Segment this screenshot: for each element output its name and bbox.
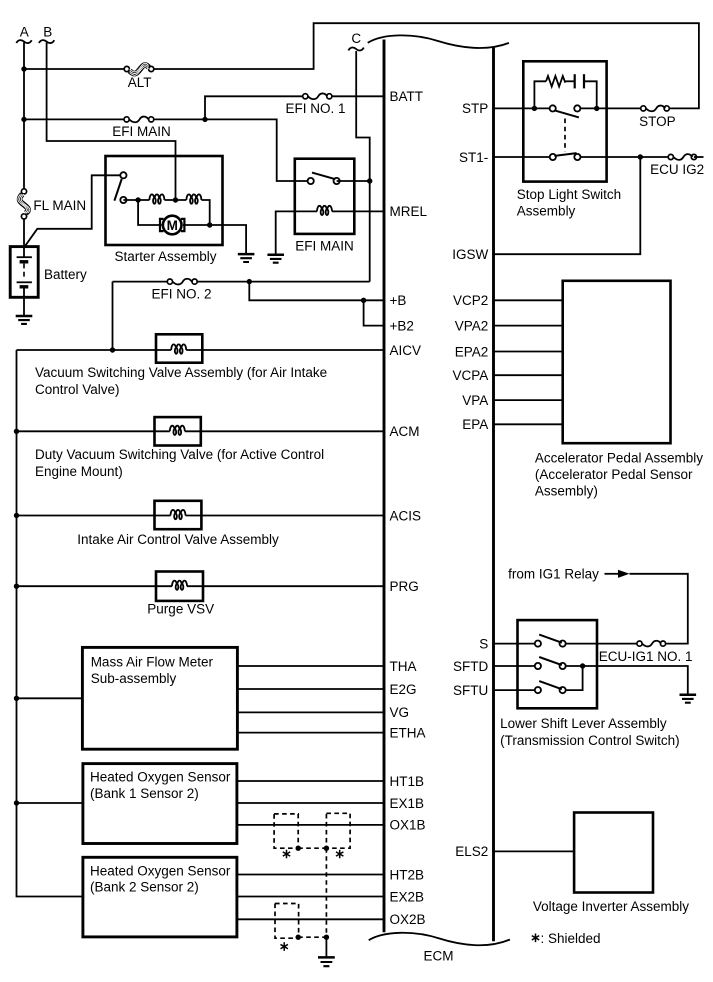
wire EFI MAIN fuse output to relay switch bbox=[151, 119, 307, 181]
svg-text:Starter Assembly: Starter Assembly bbox=[114, 249, 216, 264]
svg-text:(Transmission Control Switch): (Transmission Control Switch) bbox=[500, 733, 680, 748]
shield dashed box OX1B right bbox=[326, 813, 350, 848]
svg-text:ECU IG2: ECU IG2 bbox=[650, 162, 704, 177]
box Voltage Inverter Assembly bbox=[574, 813, 653, 893]
junction dot relay output / C bbox=[367, 178, 372, 183]
ground SFTD bbox=[680, 694, 697, 697]
junction dot bus MAF bbox=[14, 696, 19, 701]
svg-text:HT2B: HT2B bbox=[390, 867, 425, 882]
wire STP from ECM bbox=[494, 107, 553, 109]
junction dot coil line left bbox=[135, 197, 140, 202]
svg-text:B: B bbox=[43, 25, 52, 40]
ECM right edge bbox=[492, 48, 495, 942]
VSV box PRG bbox=[156, 572, 203, 601]
svg-text:BATT: BATT bbox=[390, 89, 424, 104]
ground shield bbox=[318, 956, 335, 959]
wire SFTU output up to SFTD bbox=[563, 666, 583, 690]
svg-text:ACM: ACM bbox=[390, 424, 420, 439]
motor M starter bbox=[163, 216, 182, 235]
wire EPA bbox=[494, 423, 563, 425]
svg-text:Vacuum Switching Valve Assembl: Vacuum Switching Valve Assembly (for Air… bbox=[35, 365, 327, 380]
svg-text:EFI NO. 2: EFI NO. 2 bbox=[151, 286, 211, 301]
fuse EFI NO. 1 bbox=[303, 94, 308, 99]
svg-text:Engine Mount): Engine Mount) bbox=[35, 464, 123, 479]
wire EPA2 bbox=[494, 351, 563, 353]
ECM bottom wavy edge bbox=[369, 933, 510, 945]
svg-text:C: C bbox=[351, 31, 361, 46]
wire E2G bbox=[237, 688, 384, 690]
svg-text:Intake Air Control Valve Assem: Intake Air Control Valve Assembly bbox=[77, 532, 279, 547]
wire ST1- from ECM bbox=[494, 156, 553, 158]
battery feed wire to starter switch bbox=[24, 175, 123, 247]
svg-text:+B2: +B2 bbox=[390, 318, 414, 333]
junction dot A-ALT bbox=[21, 66, 26, 71]
shift switch SFTU contacts bbox=[535, 687, 541, 693]
junction dot shield4 bbox=[324, 935, 329, 940]
svg-text:EFI MAIN: EFI MAIN bbox=[295, 238, 354, 253]
svg-text:FL MAIN: FL MAIN bbox=[33, 198, 86, 213]
wire +B2 bbox=[364, 300, 384, 325]
svg-text:ECM: ECM bbox=[424, 949, 454, 964]
relay box EFI MAIN bbox=[295, 159, 355, 234]
node C break symbol bbox=[348, 47, 363, 50]
box Heated Oxygen Sensor bank1 bbox=[83, 764, 237, 844]
wire ALT line from A bbox=[24, 68, 127, 70]
wire coil line right corner down to motor line bbox=[201, 200, 209, 225]
wire A vertical bbox=[23, 43, 25, 248]
VSV box ACIS bbox=[155, 501, 202, 529]
wire relay switch output to C node junction bbox=[337, 180, 370, 182]
svg-text:VCP2: VCP2 bbox=[453, 293, 488, 308]
junction dot bus ACIS bbox=[14, 513, 19, 518]
capacitor stop switch bbox=[574, 74, 576, 88]
wire starter switch to coil line bbox=[123, 199, 149, 201]
wire MREL from relay coil to ECM bbox=[332, 210, 384, 212]
wire ST1- switch output bbox=[577, 156, 670, 158]
svg-text:Duty Vacuum Switching Valve (f: Duty Vacuum Switching Valve (for Active … bbox=[35, 447, 324, 462]
svg-text:ALT: ALT bbox=[128, 75, 152, 90]
wire +B bbox=[249, 282, 384, 301]
coil VSV ACIS bbox=[171, 510, 186, 516]
stop switch 1 lever bbox=[554, 110, 579, 117]
svg-text:Purge VSV: Purge VSV bbox=[147, 602, 214, 617]
relay switch contacts bbox=[308, 178, 314, 184]
wire VCPA bbox=[494, 374, 563, 376]
coil VSV PRG bbox=[172, 581, 187, 587]
wire EX1B bbox=[237, 802, 384, 804]
svg-text:ACIS: ACIS bbox=[390, 508, 422, 523]
svg-text:M: M bbox=[167, 218, 178, 233]
svg-text:PRG: PRG bbox=[390, 579, 419, 594]
svg-text:(Bank 1 Sensor 2): (Bank 1 Sensor 2) bbox=[90, 786, 199, 801]
stop switch 2 contacts bbox=[550, 154, 556, 160]
wire IGSW bbox=[494, 157, 641, 254]
wire ACM line bbox=[17, 430, 385, 432]
wire capacitor to right stub bbox=[584, 81, 597, 108]
stop switch 1 contacts bbox=[550, 105, 556, 111]
coil VSV ACM bbox=[170, 426, 185, 432]
node A break symbol bbox=[16, 40, 31, 43]
svg-text:(Bank 2 Sensor 2): (Bank 2 Sensor 2) bbox=[90, 880, 199, 895]
shift switch SFTU lever bbox=[539, 681, 562, 689]
box Heated Oxygen Sensor bank2 bbox=[83, 857, 237, 937]
stop light switch box bbox=[523, 61, 606, 181]
wire ACIS line bbox=[17, 515, 385, 517]
shift switch S contacts bbox=[535, 641, 541, 647]
wire EFI NO.1 branch to BATT bbox=[205, 96, 384, 119]
wire PRG line bbox=[17, 585, 385, 587]
junction dot bus PRG bbox=[14, 584, 19, 589]
wire ECU IG2 tail bbox=[694, 156, 704, 158]
shield dashed box OX2B bbox=[275, 904, 299, 939]
junction dot bus ACM bbox=[14, 429, 19, 434]
ground starter bbox=[238, 253, 255, 256]
svg-text:ST1-: ST1- bbox=[459, 150, 488, 165]
svg-text:Voltage Inverter Assembly: Voltage Inverter Assembly bbox=[533, 899, 689, 914]
svg-text:EPA: EPA bbox=[462, 417, 488, 432]
label asterisk shield1 bbox=[283, 850, 290, 859]
svg-text:Assembly: Assembly bbox=[517, 203, 576, 218]
svg-text:EFI NO. 1: EFI NO. 1 bbox=[285, 101, 345, 116]
ECM top wavy edge bbox=[368, 35, 509, 48]
dashed link between stop switches bbox=[564, 119, 566, 152]
wire HT2B bbox=[237, 874, 384, 876]
wire node C down joining relay output and EFI NO.2 line bbox=[356, 51, 370, 282]
shield dashed link 2 bbox=[298, 936, 326, 938]
shift switch SFTD lever bbox=[539, 657, 562, 665]
wire bus feed to MAF box bbox=[17, 697, 83, 699]
wire EX2B bbox=[237, 896, 384, 898]
label asterisk shield3 bbox=[281, 942, 288, 951]
svg-text:ETHA: ETHA bbox=[390, 725, 426, 740]
svg-text:Heated Oxygen Sensor: Heated Oxygen Sensor bbox=[90, 864, 231, 879]
junction dot STP left bbox=[532, 106, 537, 111]
junction dot bus HO2S1 bbox=[14, 800, 19, 805]
svg-text:ECU-IG1 NO. 1: ECU-IG1 NO. 1 bbox=[599, 649, 693, 664]
junction dot EFI NO.2 to +B bbox=[247, 279, 252, 284]
fuse EFI MAIN bbox=[124, 117, 129, 122]
svg-text:E2G: E2G bbox=[390, 682, 417, 697]
VSV box AICV bbox=[156, 334, 202, 362]
svg-text:SFTU: SFTU bbox=[453, 683, 488, 698]
svg-text:IGSW: IGSW bbox=[452, 247, 488, 262]
ground below battery bbox=[16, 315, 33, 318]
junction dot STP right bbox=[594, 106, 599, 111]
fuse ECU-IG1 NO. 1 bbox=[637, 641, 642, 646]
junction dot SFTD-SFTU bbox=[580, 663, 585, 668]
wire THA bbox=[237, 665, 384, 667]
svg-text:OX2B: OX2B bbox=[390, 912, 426, 927]
shift switch S lever bbox=[539, 635, 562, 643]
svg-text:STP: STP bbox=[462, 101, 488, 116]
label shielded note bbox=[532, 934, 539, 943]
svg-text:+B: +B bbox=[390, 293, 407, 308]
wire VPA bbox=[494, 399, 563, 401]
wire SFTD from ECM bbox=[494, 665, 538, 667]
wire resistor to capacitor bbox=[565, 80, 574, 82]
junction dot shield3 bbox=[296, 935, 301, 940]
junction dot B line into coil bbox=[173, 197, 178, 202]
svg-text:THA: THA bbox=[390, 659, 417, 674]
junction dot motor line right bbox=[207, 222, 212, 227]
stop switch 2 lever bbox=[555, 153, 577, 156]
svg-text:MREL: MREL bbox=[390, 204, 428, 219]
svg-text:Stop Light Switch: Stop Light Switch bbox=[517, 187, 621, 202]
junction dot EFI NO.2 on AICV line bbox=[110, 347, 115, 352]
svg-text:A: A bbox=[20, 25, 29, 40]
wire left bus vertical bbox=[17, 350, 83, 897]
svg-text:EFI MAIN: EFI MAIN bbox=[112, 124, 171, 139]
ground relay coil bbox=[267, 254, 284, 257]
svg-text:Lower Shift Lever Assembly: Lower Shift Lever Assembly bbox=[500, 716, 667, 731]
box Mass Air Flow Meter bbox=[82, 647, 237, 749]
wire stub to resistor bbox=[534, 81, 546, 108]
VSV box ACM bbox=[155, 417, 201, 445]
junction dot EFI NO.1 branch bbox=[202, 117, 207, 122]
wire IG1 feed to ECU-IG1 fuse bbox=[630, 574, 688, 644]
junction dot A-EFIMAIN bbox=[21, 117, 26, 122]
svg-text:Assembly): Assembly) bbox=[535, 484, 598, 499]
wire ALT fuse output to top bus and down to STOP line bbox=[151, 23, 699, 108]
wire EFI NO.2 line bbox=[113, 281, 370, 283]
junction dot ST1- IGSW bbox=[638, 154, 643, 159]
wire B vertical down into starter coil bbox=[47, 43, 176, 201]
svg-text:AICV: AICV bbox=[390, 343, 422, 358]
junction dot +B to +B2 bbox=[361, 298, 366, 303]
svg-text:(Accelerator Pedal Sensor: (Accelerator Pedal Sensor bbox=[535, 467, 693, 482]
svg-text:from IG1 Relay: from IG1 Relay bbox=[508, 567, 599, 582]
shift switch SFTD contacts bbox=[535, 663, 541, 669]
wire STP switch output to STOP fuse bbox=[577, 107, 643, 109]
wire OX1B bbox=[237, 824, 384, 826]
wire relay coil left to ground bbox=[276, 211, 317, 254]
junction dot shield2 bbox=[324, 846, 329, 851]
coil starter L1 bbox=[164, 199, 186, 201]
wire OX2B bbox=[237, 918, 384, 920]
coil starter L2 bbox=[186, 194, 201, 200]
shield dashed vertical bbox=[325, 848, 327, 937]
svg-text:Sub-assembly: Sub-assembly bbox=[91, 671, 177, 686]
svg-text:EX2B: EX2B bbox=[390, 889, 425, 904]
svg-text:VPA: VPA bbox=[462, 393, 488, 408]
fusible link FL MAIN bbox=[21, 189, 26, 194]
svg-text:HT1B: HT1B bbox=[390, 774, 425, 789]
wire motor line bbox=[138, 200, 246, 254]
starter assembly box bbox=[106, 156, 223, 245]
fuse ALT (fusible link) bbox=[124, 66, 129, 71]
arrow from IG1 Relay bbox=[605, 573, 619, 575]
wire ELS2 bbox=[494, 850, 575, 852]
box Lower Shift Lever Assembly bbox=[518, 620, 598, 708]
wire shield to ground bbox=[325, 937, 327, 957]
box Accelerator Pedal Assembly bbox=[563, 281, 671, 443]
wire VG bbox=[237, 711, 384, 713]
node B break symbol bbox=[39, 40, 54, 43]
wire ETHA bbox=[237, 732, 384, 734]
wire S line from ECM bbox=[494, 643, 538, 645]
fuse STOP bbox=[641, 106, 646, 111]
starter switch lever bbox=[114, 179, 121, 201]
wire AICV line bbox=[17, 349, 385, 351]
label asterisk shield2 bbox=[336, 850, 343, 859]
wire VCP2 bbox=[494, 299, 563, 301]
wire HT1B bbox=[237, 780, 384, 782]
wire EFI NO.2 drop to AICV bus bbox=[112, 282, 114, 350]
svg-text:S: S bbox=[479, 636, 488, 651]
wire VPA2 bbox=[494, 325, 563, 327]
svg-text:OX1B: OX1B bbox=[390, 818, 426, 833]
svg-text:Accelerator Pedal Assembly: Accelerator Pedal Assembly bbox=[535, 451, 703, 466]
resistor stop switch bbox=[546, 76, 565, 87]
coil VSV AICV bbox=[171, 344, 186, 350]
battery Battery bbox=[10, 247, 38, 298]
svg-text:: Shielded: : Shielded bbox=[541, 931, 601, 946]
svg-text:Mass Air Flow Meter: Mass Air Flow Meter bbox=[91, 654, 214, 669]
wire SFTU from ECM bbox=[494, 689, 538, 691]
shield dashed link bbox=[298, 847, 326, 849]
svg-text:STOP: STOP bbox=[639, 114, 676, 129]
shield dashed box OX1B left bbox=[274, 814, 298, 848]
fuse ECU IG2 bbox=[668, 154, 673, 159]
svg-text:EPA2: EPA2 bbox=[455, 344, 489, 359]
wire SFTD output to ground bbox=[563, 666, 688, 695]
svg-text:VPA2: VPA2 bbox=[455, 318, 489, 333]
junction dot shield1 bbox=[296, 846, 301, 851]
svg-text:Control Valve): Control Valve) bbox=[35, 382, 120, 397]
svg-text:VG: VG bbox=[390, 705, 410, 720]
svg-text:EX1B: EX1B bbox=[390, 796, 425, 811]
svg-text:VCPA: VCPA bbox=[453, 368, 489, 383]
relay switch lever bbox=[312, 173, 335, 180]
svg-text:Battery: Battery bbox=[44, 267, 87, 282]
svg-text:SFTD: SFTD bbox=[453, 659, 488, 674]
wire bus feed to HO2S bank1 bbox=[17, 802, 83, 804]
relay coil EFI MAIN bbox=[317, 206, 332, 212]
svg-text:Heated Oxygen Sensor: Heated Oxygen Sensor bbox=[90, 770, 231, 785]
svg-text:ELS2: ELS2 bbox=[455, 844, 488, 859]
wire S switch output to fuse bbox=[563, 643, 640, 645]
ECM left edge bbox=[383, 40, 386, 933]
starter switch contacts bbox=[120, 172, 126, 178]
wire EFI MAIN line from A bbox=[24, 118, 127, 120]
fuse EFI NO. 2 bbox=[167, 279, 172, 284]
